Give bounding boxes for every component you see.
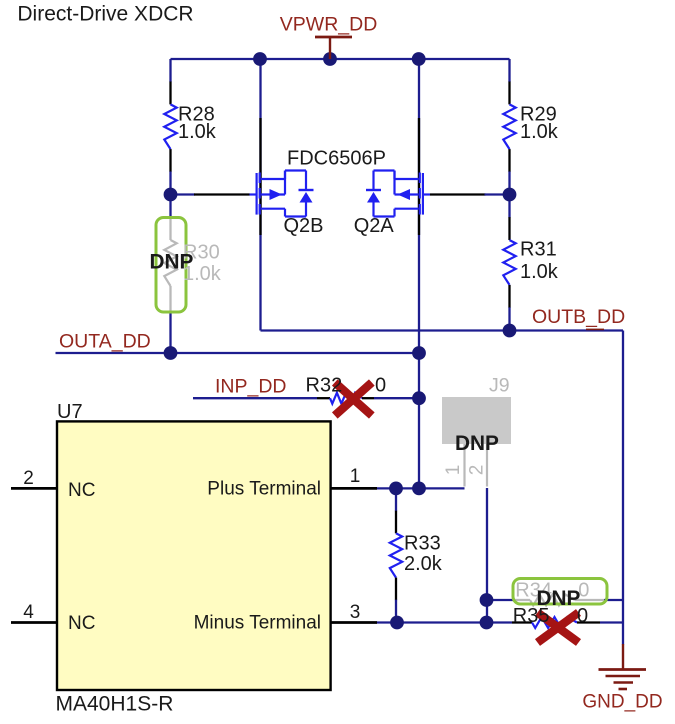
svg-text:2: 2 [23,468,34,489]
svg-text:DNP: DNP [537,587,581,610]
svg-text:Q2B: Q2B [284,215,324,237]
svg-text:OUTB_DD: OUTB_DD [532,306,625,328]
svg-text:1: 1 [443,465,464,476]
svg-text:1.0k: 1.0k [520,261,559,283]
svg-text:VPWR_DD: VPWR_DD [280,14,378,36]
svg-text:R33: R33 [404,533,441,555]
svg-text:2.0k: 2.0k [404,553,443,575]
svg-text:1.0k: 1.0k [520,121,559,143]
svg-text:MA40H1S-R: MA40H1S-R [56,693,174,716]
svg-text:NC: NC [68,480,95,501]
svg-text:GND_DD: GND_DD [582,692,662,713]
svg-text:3: 3 [350,602,361,623]
svg-text:INP_DD: INP_DD [215,376,287,398]
svg-text:1: 1 [350,466,361,487]
svg-text:DNP: DNP [150,251,194,274]
svg-text:Direct-Drive XDCR: Direct-Drive XDCR [17,3,193,26]
svg-text:Minus Terminal: Minus Terminal [194,613,321,634]
svg-text:OUTA_DD: OUTA_DD [59,331,151,353]
svg-text:J9: J9 [489,375,510,397]
svg-text:2: 2 [467,465,488,476]
svg-text:DNP: DNP [455,432,499,455]
svg-text:0: 0 [375,375,386,397]
svg-text:NC: NC [68,613,95,634]
svg-text:Q2A: Q2A [354,215,395,237]
svg-text:R31: R31 [520,239,557,261]
svg-text:Plus Terminal: Plus Terminal [207,479,321,500]
svg-text:4: 4 [23,602,34,623]
svg-text:U7: U7 [57,401,83,423]
svg-text:R32: R32 [306,375,343,397]
svg-text:FDC6506P: FDC6506P [287,148,386,170]
svg-text:1.0k: 1.0k [178,121,217,143]
